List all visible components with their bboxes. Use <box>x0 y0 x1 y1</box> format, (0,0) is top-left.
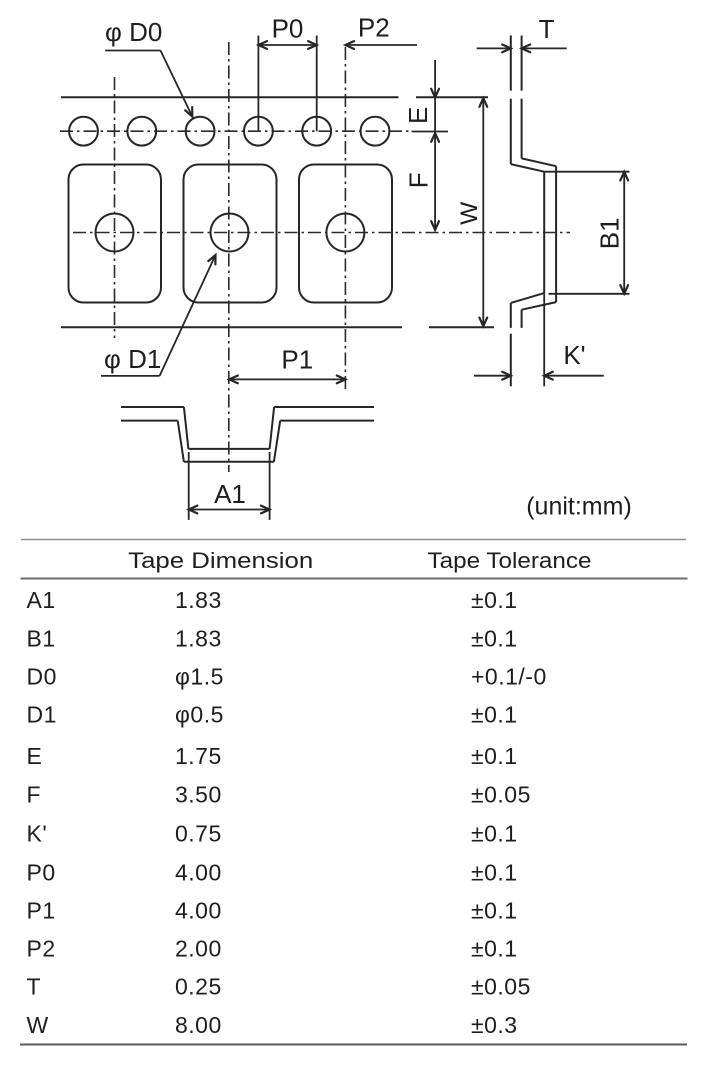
svg-text:A1: A1 <box>27 587 56 613</box>
svg-text:±0.05: ±0.05 <box>471 974 531 1000</box>
dimension B1 <box>544 172 629 294</box>
svg-text:2.00: 2.00 <box>175 936 222 962</box>
svg-text:Tape Dimension: Tape Dimension <box>128 548 313 573</box>
section view left wall outer <box>178 421 184 462</box>
svg-text:±0.1: ±0.1 <box>471 626 518 652</box>
svg-text:P1: P1 <box>27 898 56 924</box>
table header <box>128 548 591 573</box>
svg-text:±0.1: ±0.1 <box>471 743 518 769</box>
svg-text:±0.1: ±0.1 <box>471 898 518 924</box>
label W <box>456 201 483 225</box>
tape top edge <box>61 96 399 98</box>
svg-text:T: T <box>539 14 555 44</box>
dimension P1 <box>229 345 345 384</box>
sprocket hole 4 <box>244 117 273 146</box>
unit note <box>526 493 632 521</box>
section view tape bottom-right surface <box>280 420 374 422</box>
svg-text:±0.1: ±0.1 <box>471 821 518 847</box>
dimension A1 <box>189 452 270 520</box>
svg-text:A1: A1 <box>214 479 246 509</box>
svg-text:B1: B1 <box>27 626 56 652</box>
svg-text:±0.1: ±0.1 <box>471 860 518 886</box>
label phi D1 with leader arrow <box>101 255 216 376</box>
svg-text:4.00: 4.00 <box>175 860 222 886</box>
sprocket hole 6 <box>361 117 390 146</box>
pocket 2 <box>184 165 277 303</box>
section view pocket bottom inner <box>188 448 269 450</box>
sprocket hole 2 <box>127 117 156 146</box>
sprocket centerline <box>60 130 412 132</box>
svg-text:±0.1: ±0.1 <box>471 936 518 962</box>
section view tape top-left surface <box>121 406 184 408</box>
label F <box>403 172 433 188</box>
tape top edge extension <box>416 96 488 98</box>
svg-text:T: T <box>27 974 42 1000</box>
svg-text:P1: P1 <box>281 345 313 375</box>
pocket 1 centerline vertical <box>114 77 116 338</box>
svg-text:±0.1: ±0.1 <box>471 587 518 613</box>
table rows <box>27 587 547 1038</box>
section view tape bottom-left surface <box>121 420 178 422</box>
dimension W <box>479 98 487 326</box>
svg-text:4.00: 4.00 <box>175 898 222 924</box>
svg-text:(unit:mm): (unit:mm) <box>526 493 632 521</box>
svg-text:P0: P0 <box>272 14 304 44</box>
svg-text:K': K' <box>563 340 585 370</box>
svg-text:B1: B1 <box>595 217 625 249</box>
svg-text:W: W <box>456 201 483 225</box>
svg-text:+0.1/-0: +0.1/-0 <box>471 664 547 690</box>
pocket hole 3 <box>326 214 364 252</box>
label phi D0 with leader arrow <box>105 17 192 117</box>
svg-text:F: F <box>403 172 433 188</box>
sprocket hole 3 <box>186 117 215 146</box>
tape bottom edge <box>61 326 402 328</box>
table bottom rule <box>20 1044 687 1046</box>
dimension T <box>477 14 567 52</box>
label B1 <box>595 217 625 249</box>
svg-text:W: W <box>27 1012 49 1038</box>
cross-section tape right surface <box>522 36 557 328</box>
pocket 3 <box>299 165 392 303</box>
section view right wall inner <box>270 407 275 449</box>
svg-text:E: E <box>27 743 43 769</box>
section view tape top-right surface <box>274 406 374 408</box>
pocket 3 centerline vertical <box>344 47 346 390</box>
svg-text:±0.05: ±0.05 <box>471 782 531 808</box>
pocket hole 2 <box>211 214 249 252</box>
svg-text:D0: D0 <box>27 664 57 690</box>
svg-text:E: E <box>403 107 433 124</box>
dimension E/F line <box>412 60 448 230</box>
svg-text:0.75: 0.75 <box>175 821 222 847</box>
svg-text:K': K' <box>27 821 48 847</box>
sprocket hole 1 <box>69 117 98 146</box>
svg-text:φ0.5: φ0.5 <box>175 702 224 728</box>
dimension P2 <box>345 13 417 49</box>
table top rule <box>21 539 686 541</box>
pocket 2 centerline vertical <box>228 42 230 472</box>
dimension K prime <box>474 340 604 380</box>
pocket hole 1 <box>96 214 134 252</box>
section view pocket bottom outer <box>184 461 274 463</box>
svg-text:D1: D1 <box>27 702 57 728</box>
svg-text:P2: P2 <box>27 936 56 962</box>
dimension P0 extension line left <box>257 36 259 132</box>
svg-text:P0: P0 <box>27 860 56 886</box>
section view right wall outer <box>274 421 280 462</box>
svg-text:3.50: 3.50 <box>175 782 222 808</box>
pocket 1 <box>69 165 162 303</box>
svg-text:1.83: 1.83 <box>175 626 222 652</box>
svg-text:F: F <box>27 782 42 808</box>
sprocket hole 5 <box>302 117 331 146</box>
table header underline <box>21 578 688 580</box>
dimension P0 extension line right <box>316 36 318 132</box>
tape bottom edge extension <box>429 326 494 328</box>
svg-text:P2: P2 <box>358 13 390 43</box>
label E <box>403 107 433 124</box>
svg-text:φ1.5: φ1.5 <box>175 664 224 690</box>
svg-text:Tape Tolerance: Tape Tolerance <box>428 548 592 573</box>
cross-section tape left surface <box>511 36 544 387</box>
svg-text:φ D1: φ D1 <box>104 344 161 374</box>
dimension P0 <box>258 14 316 49</box>
svg-text:8.00: 8.00 <box>175 1012 222 1038</box>
section view left wall inner <box>184 407 189 449</box>
svg-text:1.83: 1.83 <box>175 587 222 613</box>
pocket centerline horizontal <box>73 232 570 234</box>
svg-text:0.25: 0.25 <box>175 974 222 1000</box>
K prime extension line right <box>543 293 545 386</box>
svg-text:φ D0: φ D0 <box>105 17 162 47</box>
svg-text:±0.1: ±0.1 <box>471 702 518 728</box>
svg-text:±0.3: ±0.3 <box>471 1012 518 1038</box>
svg-text:1.75: 1.75 <box>175 743 222 769</box>
